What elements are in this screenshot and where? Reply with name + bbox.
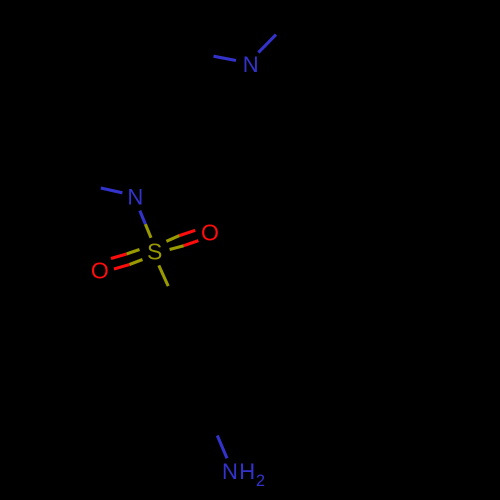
wire: bond N2-S1 (olive half near S1)	[145, 224, 151, 238]
svg-text:O: O	[91, 258, 109, 284]
wire: bond N2-CH3 (methyl half near N2)	[101, 188, 123, 193]
wire: double bond S1=O1 line 1 (red half near O1)	[179, 230, 195, 235]
wire: double bond S1=O2 line 1 (olive half near S1)	[127, 250, 140, 255]
wire: double bond S1=O1 line 2 (olive half near S1)	[170, 246, 184, 250]
svg-text:N: N	[243, 52, 259, 77]
wire: bond C(ring)-NH2 (blue half near N3)	[217, 436, 227, 459]
svg-text:H: H	[239, 459, 255, 484]
svg-text:N: N	[127, 185, 143, 210]
wire: bond S1-C(ring) olive half near S1	[159, 265, 168, 286]
wire: double bond S1=O2 line 2 (red half near O2)	[114, 265, 130, 270]
wire: bond N1-CH3 (left methyl half near N1)	[214, 56, 237, 60]
svg-text:N: N	[222, 459, 238, 484]
svg-text:S: S	[147, 239, 162, 265]
wire: bond N1-CH3 (upper-right methyl half near N1)	[258, 35, 276, 53]
wire: double bond S1=O1 line 2 (red half near O1)	[184, 241, 199, 246]
svg-text:O: O	[201, 219, 219, 245]
wire: double bond S1=O1 line 1 (olive half near S1)	[166, 236, 179, 242]
svg-text:2: 2	[256, 472, 265, 490]
wire: double bond S1=O2 line 2 (olive half near S1)	[130, 260, 143, 265]
wire: bond N2-S1 (blue half near N2)	[140, 211, 146, 225]
wire: double bond S1=O2 line 1 (red half near O2)	[111, 254, 127, 259]
